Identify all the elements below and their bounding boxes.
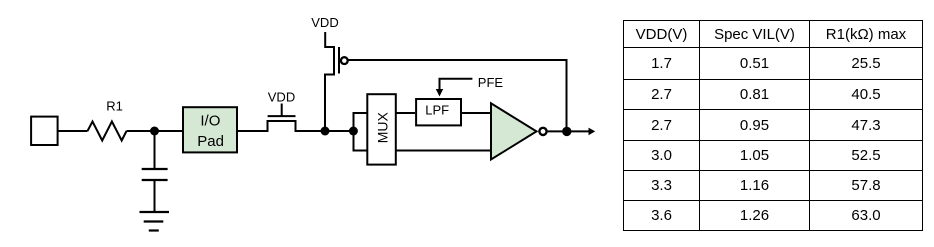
svg-text:MUX: MUX <box>374 111 390 143</box>
pmos transistor <box>325 32 348 131</box>
wire <box>396 112 415 114</box>
resistor R1 <box>88 122 127 141</box>
wire <box>548 130 567 132</box>
table: VDD vs Spec VIL vs R1 max <box>623 20 923 231</box>
svg-text:VDD: VDD <box>311 15 338 30</box>
wire <box>127 130 184 132</box>
wire <box>396 150 491 152</box>
node: R1 / capacitor / pad junction <box>150 127 159 136</box>
wire <box>154 180 156 212</box>
wire <box>462 112 491 114</box>
input terminal square <box>31 117 57 145</box>
capacitor <box>142 169 168 180</box>
ground <box>140 212 170 231</box>
wire <box>296 130 354 132</box>
lpf block LPF <box>416 99 461 125</box>
nmos pass transistor <box>268 104 296 133</box>
wire <box>154 131 156 169</box>
wire <box>237 130 268 132</box>
wire <box>354 113 368 151</box>
wire <box>58 130 88 132</box>
I/O Pad block <box>183 107 237 152</box>
mux MUX <box>367 94 396 164</box>
arrowhead into LPF <box>436 89 443 97</box>
svg-text:I/O: I/O <box>200 113 220 130</box>
wire (PFE control into LPF) <box>440 79 473 90</box>
output arrow <box>567 128 595 136</box>
svg-text:R1: R1 <box>106 99 123 114</box>
svg-text:VDD: VDD <box>268 90 295 105</box>
svg-text:LPF: LPF <box>425 103 449 118</box>
svg-text:Pad: Pad <box>197 133 224 150</box>
node: output junction <box>562 127 571 136</box>
wire (feedback from output node to pmos gate) <box>348 60 567 131</box>
svg-text:PFE: PFE <box>478 75 504 90</box>
node: pmos drain junction <box>321 127 330 136</box>
node: mux branch junction <box>349 127 358 136</box>
inverter buffer <box>491 103 547 159</box>
